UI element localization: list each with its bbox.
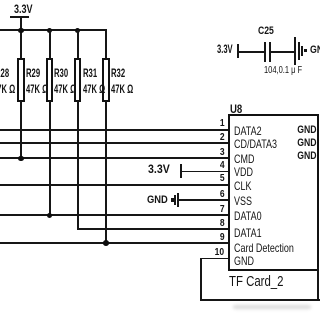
resistor R31 label: [83, 66, 97, 80]
wire TF card bottom: [200, 299, 320, 301]
pin number 10: [215, 247, 224, 258]
pin label VDD: [234, 165, 253, 179]
node R30-DATA0 junction: [47, 213, 53, 219]
pin number 7: [220, 204, 225, 215]
ground symbol at capacitor (sideways): [294, 37, 296, 66]
resistor R29 body: [17, 58, 25, 102]
pin label CLK: [234, 179, 251, 193]
wire DATA1 net (pin 8): [77, 228, 229, 230]
U8 designator: [230, 102, 242, 116]
resistor R30 body: [46, 58, 54, 102]
node bus-R31 junction: [75, 28, 81, 34]
resistor R32 label: [111, 66, 125, 80]
wire Card Detection net (pin 9): [0, 242, 229, 244]
R30 value: [54, 82, 76, 96]
resistor R29 label: [26, 66, 40, 80]
pin number 4: [220, 160, 225, 171]
resistor R32 body: [102, 58, 110, 102]
3.3V power bar at pin 4: [180, 164, 182, 178]
pin number 8: [220, 218, 225, 229]
capacitor C25 designator: [258, 25, 274, 37]
node R29-CMD junction: [18, 156, 24, 162]
R29 value: [26, 82, 48, 96]
wire CD/DATA3 net (pin 2): [0, 142, 229, 144]
pin label VSS: [234, 194, 252, 208]
3.3V power bar top-left: [10, 16, 29, 18]
R28 value 47K ohm (cut off): [0, 82, 15, 96]
GND label at pin 6: [147, 194, 168, 206]
node bus-R30 junction: [47, 28, 53, 34]
GND label at capacitor (clipped by edge): [310, 44, 320, 56]
wire R32 bottom lead: [105, 101, 107, 244]
wire R31 top lead: [77, 30, 79, 59]
wire C25 to ground: [271, 51, 295, 53]
pin label GND (pin 10): [234, 254, 254, 268]
node bus-R29 junction: [18, 28, 24, 34]
pin label Card Detection: [234, 241, 294, 255]
pin number 1: [220, 118, 225, 129]
scan noise streak: [233, 305, 311, 309]
TF Card_2 label: [229, 273, 283, 290]
wire VSS stub (pin 6): [179, 199, 229, 201]
resistor R31 body: [74, 58, 82, 102]
wire R30 top lead: [49, 30, 51, 59]
3.3V power bar at capacitor: [237, 44, 239, 59]
wire 3.3V to C25: [239, 51, 265, 53]
pin label DATA1: [234, 226, 262, 240]
3.3V label at capacitor: [217, 44, 233, 56]
pin label CMD: [234, 152, 254, 166]
resistor R28 label (cut off at left edge): [0, 66, 10, 80]
op box U8 outline: [228, 114, 319, 271]
label GND right row 3: [297, 150, 316, 162]
wire R29 bottom lead: [20, 101, 22, 159]
pin label DATA0: [234, 209, 262, 223]
wire VDD stub (pin 4): [181, 171, 230, 173]
wire CLK net (pin 5): [0, 184, 229, 186]
R31 value: [83, 82, 105, 96]
3.3V label at pin 4: [148, 164, 170, 176]
pin label DATA2: [234, 124, 262, 138]
node R32-CardDetection junction: [103, 240, 109, 246]
pin number 2: [220, 132, 225, 143]
pin label CD/DATA3: [234, 137, 277, 151]
label GND right row 1: [297, 124, 316, 136]
wire R30 bottom lead: [49, 101, 51, 216]
C25 value label: [264, 65, 302, 76]
label GND right row 2: [297, 137, 316, 149]
wire U8 right edge extension: [317, 267, 319, 301]
wire 3.3V bus: [0, 29, 107, 31]
wire DATA0 net (pin 7): [0, 214, 229, 216]
wire GND stub (pin 10): [200, 258, 230, 260]
wire TF card left vertical: [200, 258, 202, 302]
wire 3.3V drop / R29 top lead: [20, 18, 22, 60]
R32 value: [111, 82, 133, 96]
3.3V label top-left: [14, 2, 33, 16]
wire DATA2 net (pin 1): [0, 129, 229, 131]
pin number 6: [220, 189, 225, 200]
resistor R30 label: [54, 66, 68, 80]
pin number 5: [220, 173, 225, 184]
wire R32 top lead: [105, 29, 107, 58]
pin number 3: [220, 147, 225, 158]
capacitor C25 plates: [264, 42, 267, 62]
wire CMD net (pin 3): [0, 157, 229, 159]
pin number 9: [220, 232, 225, 243]
ground symbol at pin 6 (sideways): [171, 198, 174, 201]
wire R31 bottom lead: [77, 101, 79, 230]
